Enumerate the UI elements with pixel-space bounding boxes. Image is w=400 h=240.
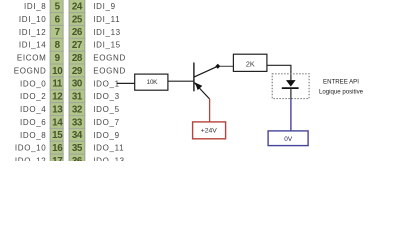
svg-text:IDO_0: IDO_0 — [20, 79, 46, 88]
svg-text:IDI_13: IDI_13 — [93, 28, 120, 37]
diode D1 cathode bar — [282, 87, 299, 89]
wire: resistor 2K to opto input (with corner down) — [267, 65, 291, 80]
svg-text:14: 14 — [52, 117, 63, 128]
connector X: terminal-number column 1 (pins 5-17) — [50, 0, 63, 167]
wire: diode cathode down inside enclosure — [290, 88, 292, 99]
svg-text:13: 13 — [52, 104, 63, 115]
svg-text:36: 36 — [72, 156, 83, 161]
opto-input enclosure (dashed box) — [272, 74, 309, 99]
terminal cell separator row 10/11 — [50, 127, 64, 129]
terminal cell separator row 7/8 — [50, 89, 64, 91]
transistor Q1 (PNP) base bar — [193, 63, 195, 92]
wire: enclosure to 0V supply (blue) — [290, 99, 292, 131]
svg-text:10K: 10K — [147, 79, 159, 86]
terminal cell separator row 5/6 — [50, 63, 64, 65]
terminal cell separator row 6/7 — [50, 76, 64, 78]
junction node (collector to 2K) — [215, 64, 220, 69]
resistor 10K — [135, 74, 168, 90]
svg-text:IDO_13: IDO_13 — [93, 156, 124, 161]
terminal cell separator row 4/5 — [50, 50, 64, 52]
svg-text:12: 12 — [52, 92, 63, 103]
svg-text:IDO_3: IDO_3 — [93, 92, 119, 101]
svg-text:IDO_5: IDO_5 — [93, 105, 119, 114]
svg-text:31: 31 — [72, 92, 83, 103]
transistor Q1 emitter arrow (points to base: PNP) — [195, 83, 202, 91]
terminal cell separator row 8/9 — [50, 102, 64, 104]
terminal cell separator row 1/2 — [50, 12, 64, 14]
wire: from pin IDO_1 to resistor 10K — [117, 82, 135, 84]
svg-text:30: 30 — [72, 79, 83, 90]
svg-text:Logique positive: Logique positive — [319, 88, 364, 95]
transistor Q1 collector lead — [194, 66, 217, 77]
svg-text:IDO_2: IDO_2 — [20, 92, 46, 101]
connector X: terminal-number column 2 (pins 24-36) — [69, 0, 85, 167]
svg-text:15: 15 — [52, 130, 63, 141]
svg-text:IDI_8: IDI_8 — [24, 2, 46, 11]
wire: transistor emitter to +24V supply (red) — [209, 99, 211, 122]
terminal cell separator row 2/3 — [50, 24, 64, 26]
svg-text:16: 16 — [52, 143, 63, 154]
svg-text:IDO_8: IDO_8 — [20, 131, 46, 140]
svg-text:EICOM: EICOM — [17, 54, 46, 63]
svg-text:10: 10 — [52, 66, 63, 77]
svg-text:27: 27 — [72, 40, 83, 51]
svg-text:IDI_10: IDI_10 — [19, 15, 46, 24]
svg-text:IDI_9: IDI_9 — [93, 2, 115, 11]
svg-text:IDI_14: IDI_14 — [19, 41, 46, 50]
wire: resistor 10K to transistor base — [168, 80, 194, 82]
svg-text:26: 26 — [72, 27, 83, 38]
wire: junction node to resistor 2K — [220, 65, 234, 67]
svg-text:28: 28 — [72, 53, 83, 64]
svg-text:EOGND: EOGND — [93, 54, 126, 63]
svg-text:IDO_4: IDO_4 — [20, 105, 46, 114]
terminal cell separator row 3/4 — [50, 37, 64, 39]
transistor Q1 emitter lead — [194, 83, 209, 99]
resistor 2K — [233, 54, 267, 71]
svg-text:IDI_15: IDI_15 — [93, 41, 120, 50]
supply box 0V — [268, 131, 308, 146]
terminal cell separator row 9/10 — [50, 115, 64, 117]
svg-text:IDO_11: IDO_11 — [93, 144, 124, 153]
svg-text:ENTREE API: ENTREE API — [323, 79, 359, 86]
terminal cell separator row 12/13 — [50, 153, 64, 155]
svg-text:IDO_10: IDO_10 — [15, 144, 46, 153]
svg-text:17: 17 — [52, 156, 63, 161]
svg-text:34: 34 — [72, 130, 83, 141]
svg-text:32: 32 — [72, 104, 83, 115]
svg-text:+24V: +24V — [201, 127, 218, 134]
svg-text:25: 25 — [72, 14, 83, 25]
svg-text:EOGND: EOGND — [14, 66, 47, 75]
svg-text:29: 29 — [72, 66, 83, 77]
svg-text:IDO_1: IDO_1 — [93, 79, 119, 88]
svg-text:11: 11 — [52, 79, 63, 90]
svg-text:IDI_11: IDI_11 — [93, 15, 120, 24]
svg-text:IDO_7: IDO_7 — [93, 118, 119, 127]
svg-text:24: 24 — [72, 2, 83, 13]
svg-text:IDO_12: IDO_12 — [15, 156, 46, 161]
svg-text:2K: 2K — [246, 59, 255, 68]
svg-text:EOGND: EOGND — [93, 66, 126, 75]
svg-text:33: 33 — [72, 117, 83, 128]
svg-text:0V: 0V — [284, 136, 293, 143]
terminal cell separator row 11/12 — [50, 140, 64, 142]
svg-text:35: 35 — [72, 143, 83, 154]
svg-text:IDO_6: IDO_6 — [20, 118, 46, 127]
diode D1 (PLC input LED) triangle — [286, 80, 296, 87]
svg-text:IDI_12: IDI_12 — [19, 28, 46, 37]
supply box +24V — [193, 122, 226, 139]
svg-text:IDO_9: IDO_9 — [93, 131, 119, 140]
